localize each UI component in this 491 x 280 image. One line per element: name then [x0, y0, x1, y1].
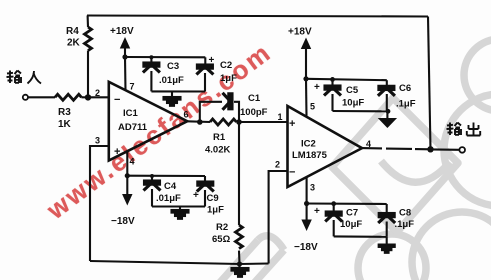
node C5 top junction — [330, 77, 335, 82]
label R3 — [58, 107, 71, 118]
svg-text:R1: R1 — [213, 132, 226, 143]
svg-text:.1μF: .1μF — [395, 219, 415, 230]
node C1 right junction — [236, 119, 242, 125]
svg-text:−18V: −18V — [294, 242, 318, 253]
wire R4 lower lead — [87, 51, 89, 98]
value 65ohm — [212, 234, 231, 245]
label R1 — [213, 132, 226, 143]
svg-text:+18V: +18V — [288, 27, 312, 38]
label C2 — [220, 60, 232, 71]
label shuchu output — [447, 123, 481, 136]
value 1uF — [220, 73, 237, 84]
node R2 ground junction — [237, 261, 242, 266]
svg-text:65Ω: 65Ω — [212, 234, 231, 245]
svg-text:C6: C6 — [399, 83, 411, 94]
pin 7 label IC1 — [130, 82, 135, 92]
ground under C4 — [172, 207, 189, 219]
wire R3 to IC1 pin 2 — [81, 96, 108, 98]
value 1K — [58, 119, 72, 130]
wire IC1 pin3 to ground rail — [90, 146, 109, 261]
wire C4 C9 bottom rail — [152, 205, 205, 207]
node C6 bottom junction — [386, 109, 391, 114]
svg-text:+: + — [289, 118, 295, 130]
pin 3 label IC1 — [95, 136, 100, 146]
value .1uF — [396, 99, 416, 110]
svg-text:+: + — [193, 190, 199, 201]
label R2 — [216, 222, 228, 233]
power +18V supply IC1 — [110, 26, 134, 57]
op-amp IC1 AD711 — [109, 82, 188, 161]
label C4 — [164, 181, 177, 192]
pin 2 label IC1 — [95, 88, 100, 98]
svg-text:C4: C4 — [164, 181, 177, 192]
wire ground bottom rail — [90, 261, 269, 264]
wire R1 to IC2 pin 1 — [237, 121, 288, 123]
node output junction — [427, 146, 433, 152]
ground under C6 — [380, 111, 394, 126]
svg-text:100pF: 100pF — [240, 107, 268, 118]
wire C7 C8 bottom rail — [334, 235, 387, 238]
svg-text:AD711: AD711 — [118, 122, 148, 133]
wire decoupling rail C5 top — [306, 79, 387, 80]
svg-text:−: − — [114, 94, 120, 106]
capacitor C7 — [314, 204, 342, 237]
capacitor C4 — [144, 174, 161, 207]
svg-text:.01μF: .01μF — [159, 75, 184, 86]
svg-text:−: − — [289, 167, 295, 179]
svg-text:R2: R2 — [216, 222, 228, 233]
wire C3 C2 bottom rail — [151, 90, 205, 92]
pin 3 label IC2 — [310, 183, 315, 193]
resistor R3 — [55, 94, 81, 100]
value 4.02K — [205, 145, 230, 156]
svg-text:2: 2 — [275, 160, 280, 170]
svg-text:C8: C8 — [399, 208, 411, 219]
svg-text:6: 6 — [184, 110, 189, 120]
wire right feedback rail — [428, 17, 431, 150]
value 10uF — [340, 219, 362, 230]
svg-text:5: 5 — [310, 102, 315, 112]
capacitor C5 — [314, 79, 341, 111]
svg-text:R3: R3 — [58, 107, 71, 118]
wire IC2 pin2 riser — [269, 171, 288, 264]
node input junction — [85, 94, 91, 100]
capacitor C1 — [200, 93, 239, 122]
svg-text:C9: C9 — [207, 193, 219, 204]
svg-text:10μF: 10μF — [340, 219, 362, 230]
wire IC1 pin 7 — [124, 57, 127, 91]
input terminal — [23, 95, 28, 100]
resistor R1 — [210, 119, 236, 125]
svg-text:+: + — [209, 55, 215, 66]
wire IC2 pin 3 — [306, 177, 308, 204]
svg-text:1μF: 1μF — [220, 73, 237, 84]
label C5 — [346, 85, 359, 96]
svg-text:+18V: +18V — [110, 26, 134, 37]
power -18V supply IC1 — [111, 176, 135, 227]
output terminal — [459, 147, 465, 153]
svg-text:IC2: IC2 — [301, 139, 316, 150]
svg-text:7: 7 — [130, 82, 135, 92]
op-amp IC2 LM1875 — [288, 106, 363, 187]
capacitor C9 — [193, 176, 214, 207]
node pin4 junction — [125, 173, 130, 178]
wire IC2 output — [362, 148, 431, 149]
resistor R2 — [236, 122, 243, 264]
pin 6 label IC1 — [184, 110, 189, 120]
capacitor C2 — [196, 55, 214, 92]
label R4 — [66, 26, 79, 37]
wire IC1 pin 4 — [126, 151, 128, 176]
capacitor C3 — [143, 55, 160, 91]
pin 4 label IC1 — [130, 157, 135, 167]
svg-text:R4: R4 — [66, 26, 79, 37]
svg-text:+: + — [314, 82, 320, 93]
svg-text:.1μF: .1μF — [396, 99, 416, 110]
ground under C8 — [379, 237, 395, 253]
value 100pF — [240, 107, 268, 118]
svg-text:+: + — [114, 146, 120, 158]
wire decoupling rail C7 top — [307, 202, 387, 205]
ground under R2 — [232, 264, 249, 277]
wire R4 upper lead — [87, 16, 90, 28]
power +18V supply IC2 — [288, 27, 312, 79]
node C7 top junction — [331, 201, 336, 206]
svg-text:1: 1 — [278, 112, 283, 122]
value .01uF — [159, 75, 184, 86]
svg-text:10μF: 10μF — [342, 98, 364, 109]
svg-text:4: 4 — [130, 157, 135, 167]
capacitor C8 — [378, 204, 395, 237]
pin 2 label IC2 — [275, 160, 280, 170]
svg-text:1K: 1K — [58, 119, 72, 130]
wire input to R3 — [28, 96, 55, 98]
svg-text:C2: C2 — [220, 60, 232, 71]
pin 4 label IC2 — [366, 139, 371, 149]
svg-text:1μF: 1μF — [207, 205, 224, 216]
value .01uF — [156, 193, 181, 204]
svg-text:4.02K: 4.02K — [205, 145, 230, 156]
value .1uF — [395, 219, 415, 230]
svg-text:C3: C3 — [167, 61, 179, 72]
resistor R4 — [85, 27, 92, 51]
svg-text:+: + — [314, 206, 320, 217]
value 2K — [67, 38, 81, 49]
label C9 — [207, 193, 219, 204]
pin 1 label IC2 — [278, 112, 283, 122]
label C8 — [399, 208, 411, 219]
svg-text:C5: C5 — [346, 85, 359, 96]
node pin7 supply junction — [122, 54, 127, 59]
capacitor C6 — [378, 80, 395, 111]
node IC2 supply junction — [303, 76, 308, 81]
ground under C3 — [164, 92, 181, 106]
label C3 — [167, 61, 179, 72]
wire decoupling rail C3 top — [125, 56, 205, 58]
node C1 left junction — [197, 119, 203, 125]
svg-text:C1: C1 — [248, 93, 261, 104]
svg-text:2: 2 — [95, 88, 100, 98]
svg-text:C7: C7 — [346, 208, 358, 219]
svg-text:−18V: −18V — [111, 216, 135, 227]
value 1uF — [207, 205, 224, 216]
wire IC2 pin 5 — [305, 79, 308, 117]
label C6 — [399, 83, 411, 94]
wire top feedback rail — [87, 16, 428, 17]
wire output to terminal — [431, 148, 460, 151]
node pin3 junction — [304, 201, 309, 206]
svg-text:3: 3 — [95, 136, 100, 146]
svg-text:3: 3 — [310, 183, 315, 193]
value 10uF — [342, 98, 364, 109]
power -18V supply IC2 — [294, 204, 318, 254]
label C1 — [248, 93, 261, 104]
svg-text:IC1: IC1 — [123, 108, 139, 119]
svg-text:2K: 2K — [67, 38, 81, 49]
label shuru input — [7, 71, 42, 84]
wire IC1 pin 6 output — [187, 120, 210, 123]
svg-text:.01μF: .01μF — [156, 193, 181, 204]
wire C5 C6 bottom rail — [333, 110, 389, 112]
svg-text:LM1875: LM1875 — [292, 150, 328, 161]
wire decoupling rail C4 top — [127, 175, 205, 177]
label C7 — [346, 208, 358, 219]
pin 5 label IC2 — [310, 102, 315, 112]
